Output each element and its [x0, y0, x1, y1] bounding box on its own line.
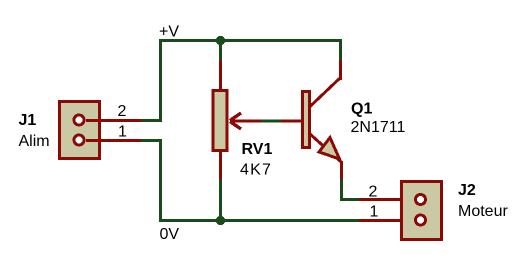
- wire emitter down: [340, 179, 343, 201]
- potentiometer RV1 body: [213, 91, 227, 151]
- pin Q1 emitter stub: [340, 161, 343, 180]
- svg-text:Q1: Q1: [351, 101, 372, 118]
- node bottom junction: [216, 216, 225, 225]
- wire J1 pin2 riser: [159, 39, 162, 122]
- pin J1.1: [86, 139, 141, 142]
- svg-text:Alim: Alim: [19, 133, 50, 150]
- connector J2: [402, 182, 442, 240]
- svg-text:Moteur: Moteur: [458, 203, 508, 220]
- wire to J2 pin2: [340, 198, 359, 201]
- wire J1 pin1 drop to 0V: [159, 139, 162, 222]
- pin J1.2: [86, 119, 141, 122]
- svg-text:1: 1: [370, 204, 379, 221]
- pin Q1 emitter diagonal: [310, 134, 341, 162]
- wire wiper segment: [261, 120, 281, 123]
- wire J1 pin1 horizontal: [141, 139, 162, 142]
- pin RV1 bottom lead: [219, 152, 222, 180]
- emitter arrowhead: [319, 138, 340, 160]
- pin Q1 base line: [281, 120, 302, 123]
- pin RV1 wiper line: [230, 120, 261, 123]
- wire RV1 bottom: [219, 180, 222, 221]
- pin Q1 collector stub: [339, 60, 342, 80]
- wire RV1 top: [219, 40, 222, 60]
- svg-text:0V: 0V: [160, 226, 180, 243]
- wire 0V rail: [159, 219, 359, 222]
- svg-text:1: 1: [118, 124, 127, 141]
- pin J2.2: [359, 198, 416, 201]
- svg-text:RV1: RV1: [242, 141, 273, 158]
- wire +V rail: [159, 39, 342, 42]
- svg-text:+V: +V: [159, 24, 179, 41]
- svg-text:4K7: 4K7: [240, 162, 272, 179]
- svg-text:2N1711: 2N1711: [351, 119, 406, 136]
- wire Q1 collector drop: [339, 40, 342, 61]
- pin J2.1: [359, 219, 416, 222]
- svg-text:J2: J2: [458, 182, 476, 199]
- svg-text:J1: J1: [19, 112, 37, 129]
- wiper arrowhead: [230, 113, 241, 129]
- pin Q1 collector diagonal: [310, 79, 340, 107]
- svg-text:2: 2: [118, 103, 127, 120]
- connector J1: [60, 102, 100, 159]
- transistor Q1 body bar: [303, 92, 310, 148]
- wire J1 pin2 horizontal: [141, 119, 162, 122]
- pin RV1 top lead: [219, 60, 222, 90]
- svg-text:2: 2: [369, 184, 378, 201]
- node top junction: [216, 36, 225, 45]
